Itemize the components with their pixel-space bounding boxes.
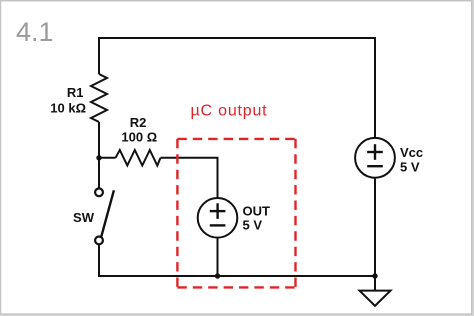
ground [360, 291, 391, 306]
svg-text:Vcc: Vcc [400, 145, 423, 160]
resistor R1 [91, 74, 107, 122]
wire R1 bottom to node A [98, 122, 100, 158]
resistor R2 [116, 150, 161, 166]
svg-text:R2: R2 [130, 115, 147, 130]
junction dot OUT/bottom [215, 273, 220, 278]
wire Vcc to ground [374, 178, 376, 290]
svg-text:4.1: 4.1 [16, 17, 54, 47]
svg-text:OUT: OUT [243, 204, 271, 219]
node A junction dot [96, 155, 101, 160]
µC output dashed boundary box [177, 139, 295, 288]
svg-text:µC output: µC output [191, 103, 268, 120]
wire bottom net [98, 275, 375, 277]
svg-text:SW: SW [73, 210, 95, 225]
wire top net (R1 top to Vcc plus) [99, 38, 375, 138]
wire R2 to OUT source [161, 158, 218, 198]
svg-text:100 Ω: 100 Ω [121, 130, 157, 145]
svg-text:5 V: 5 V [243, 218, 263, 233]
svg-text:5 V: 5 V [400, 160, 420, 175]
switch SW [95, 188, 114, 244]
voltage source OUT [198, 198, 238, 238]
svg-text:R1: R1 [67, 85, 84, 100]
voltage source Vcc [355, 138, 395, 178]
svg-text:10 kΩ: 10 kΩ [50, 101, 86, 116]
wire node A to R2 [99, 157, 116, 159]
junction dot Vcc/bottom [372, 273, 377, 278]
wire switch to bottom net [98, 245, 100, 277]
wire OUT source to bottom net [217, 238, 219, 276]
wire node A to switch [98, 158, 100, 188]
